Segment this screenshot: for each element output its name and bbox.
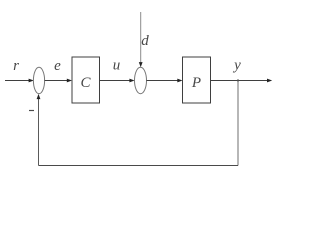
block P: [183, 57, 211, 103]
wire P to output y: [211, 80, 269, 82]
summing junction S2: [135, 67, 147, 93]
arrowhead d into S2 top: [139, 62, 143, 67]
summing junction S1: [33, 67, 44, 93]
svg-text:d: d: [141, 33, 149, 49]
node branch point: [237, 79, 239, 81]
arrowhead into block C: [67, 79, 72, 83]
svg-text:e: e: [54, 58, 61, 74]
svg-text:y: y: [232, 57, 241, 73]
wire S1 to C: [45, 80, 68, 82]
arrowhead into block P: [177, 79, 182, 83]
svg-text:r: r: [13, 58, 19, 74]
svg-text:C: C: [80, 75, 91, 91]
wire feedback up: [38, 98, 40, 166]
svg-text:P: P: [191, 75, 201, 91]
wire C to S2: [100, 80, 131, 82]
block C: [72, 57, 100, 103]
wire r input: [5, 80, 30, 82]
wire S2 to P: [147, 80, 179, 82]
arrowhead output y: [267, 79, 272, 83]
arrowhead feedback into S1 bottom: [37, 94, 41, 99]
wire d disturbance: [140, 12, 142, 64]
arrowhead into summing junction S1: [29, 79, 34, 83]
svg-text:u: u: [113, 58, 121, 74]
label minus: [29, 110, 34, 112]
arrowhead into summing junction S2: [129, 79, 134, 83]
wire branch down: [237, 81, 239, 166]
wire feedback bottom: [39, 165, 239, 167]
